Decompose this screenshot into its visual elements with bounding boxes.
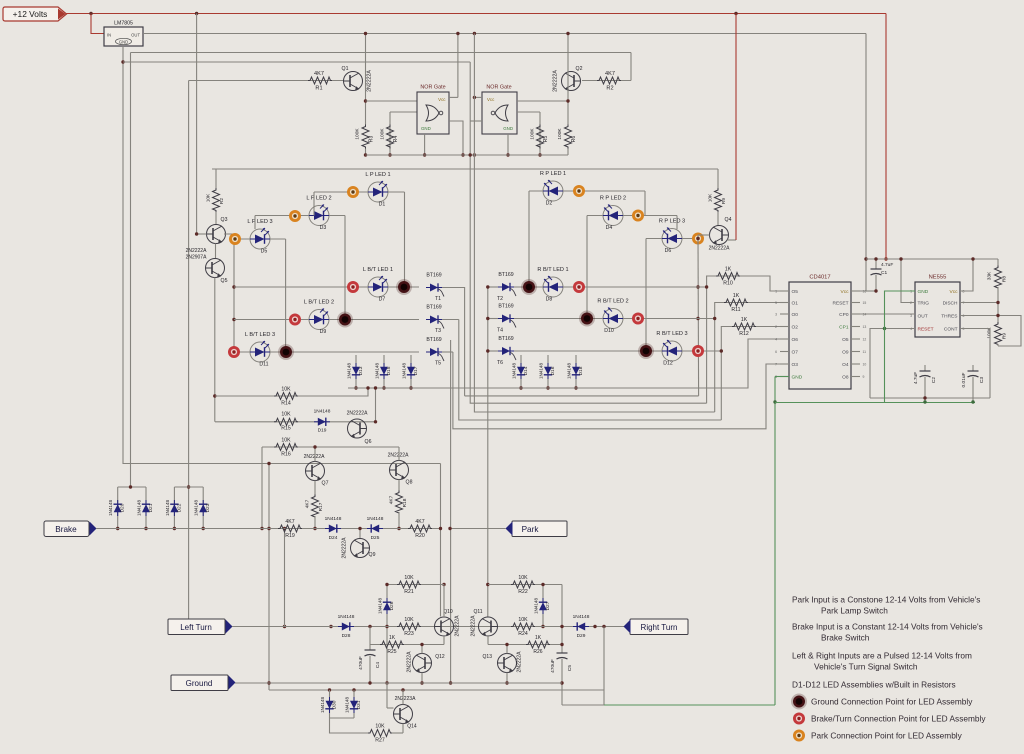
junction 375 bus — [374, 386, 377, 389]
svg-text:2N2222A: 2N2222A — [407, 651, 413, 673]
led D6 R P LED 3 — [662, 228, 682, 249]
led D1 L P LED 1 — [368, 181, 388, 202]
wire D26 col to ground — [386, 627, 388, 684]
junction Q5 col R14 row — [213, 394, 216, 397]
resistor R2 — [597, 77, 621, 84]
svg-text:D11: D11 — [259, 362, 268, 368]
wire R16 row — [262, 446, 399, 448]
svg-text:10K: 10K — [375, 724, 385, 730]
svg-text:3: 3 — [910, 314, 912, 318]
svg-text:Vcc: Vcc — [950, 289, 959, 295]
wire NOR2 input A — [517, 100, 568, 102]
wire ground row — [235, 682, 562, 684]
junction D31 y690 — [352, 688, 355, 691]
junction turn-x604 — [602, 625, 605, 628]
junction R16 brake row — [260, 527, 263, 530]
brake/turn connection point LBT1 — [347, 281, 359, 293]
wire NOR2 output — [470, 120, 482, 122]
svg-text:R25: R25 — [387, 649, 396, 655]
svg-text:O4: O4 — [842, 362, 849, 368]
svg-text:2N2222A: 2N2222A — [517, 651, 523, 673]
junction 973 y259 — [971, 257, 974, 260]
junction green 402 — [773, 400, 776, 403]
junction 998 disch — [996, 301, 999, 304]
svg-text:5: 5 — [775, 301, 777, 305]
svg-text:1N4148: 1N4148 — [345, 697, 350, 714]
wire park row1-2 link — [313, 192, 315, 216]
svg-text:D16: D16 — [550, 366, 556, 375]
diode D16 1N4148 — [547, 355, 549, 388]
resistor R17 — [314, 481, 316, 497]
svg-text:R2: R2 — [606, 86, 613, 92]
junction C4 turn row — [368, 625, 371, 628]
wire park row 2 — [255, 215, 345, 217]
svg-text:R11: R11 — [731, 307, 740, 313]
svg-text:O0: O0 — [792, 312, 799, 318]
junction on +12V rail at x196 — [195, 12, 198, 15]
svg-text:Q3: Q3 — [221, 217, 228, 223]
nor-gate U2 symbol — [495, 105, 508, 121]
wire Q13 top — [506, 645, 508, 654]
svg-text:13: 13 — [863, 325, 867, 329]
svg-text:470uF: 470uF — [358, 656, 364, 670]
ground connection point RBT2 — [579, 311, 595, 327]
svg-text:100K: 100K — [530, 128, 536, 140]
wire NOR1 Vcc stub — [449, 96, 458, 98]
junction R10col row1 — [705, 285, 708, 288]
svg-text:D10: D10 — [604, 328, 614, 334]
svg-text:R16: R16 — [281, 452, 291, 458]
svg-text:R9: R9 — [721, 198, 727, 204]
wire T3 cathode — [442, 319, 459, 321]
wire x440 drop to Q10 — [440, 464, 442, 617]
svg-text:IN: IN — [107, 33, 111, 38]
svg-text:10K: 10K — [404, 617, 414, 623]
svg-text:BT169: BT169 — [498, 272, 513, 278]
svg-text:R8: R8 — [1002, 276, 1008, 282]
svg-text:4K7: 4K7 — [305, 499, 311, 508]
svg-text:Q7: Q7 — [322, 481, 329, 487]
resistor R24 — [511, 623, 535, 630]
wire Q8 collector — [398, 447, 400, 461]
svg-text:CP1: CP1 — [839, 325, 849, 331]
svg-text:D4: D4 — [606, 225, 613, 231]
resistor R8 33K — [997, 259, 999, 267]
wire R27 to Q14 — [392, 732, 403, 734]
svg-text:R4: R4 — [393, 136, 399, 143]
diode D17 1N4148 — [410, 355, 412, 388]
junction D30 y690 — [328, 688, 331, 691]
diode D27 1N4148 — [542, 585, 544, 627]
svg-text:R18: R18 — [402, 498, 408, 507]
svg-text:D24: D24 — [329, 535, 338, 541]
wire R14 row — [215, 388, 368, 396]
wire THRES loop — [960, 316, 1021, 347]
wire R4 column — [389, 112, 391, 155]
junction x487 row1 — [486, 285, 489, 288]
svg-text:R1: R1 — [315, 86, 322, 92]
junction park riser gnd — [449, 681, 452, 684]
svg-text:C4: C4 — [375, 662, 381, 668]
junction Q13 top — [505, 643, 508, 646]
brake/turn connection point LBT3 — [228, 346, 240, 358]
wire 10K Q4 link — [717, 169, 719, 188]
svg-text:O1: O1 — [792, 301, 799, 307]
junction C5 ground row — [560, 681, 563, 684]
svg-text:Left Turn: Left Turn — [180, 623, 212, 632]
svg-text:1N4148: 1N4148 — [347, 363, 352, 380]
brake/turn connection point RBT2 — [632, 313, 644, 325]
resistor R15 — [274, 418, 298, 425]
junction Q14 y690 — [401, 688, 404, 691]
wire bus x130 down — [130, 53, 132, 488]
wire Q10 emitter drop — [443, 636, 445, 645]
junction D22 brake row — [173, 527, 176, 530]
diode D25 1N4148 — [367, 524, 383, 532]
svg-text:O8: O8 — [842, 375, 849, 381]
junction D16 bottom — [546, 386, 549, 389]
wire x487 long bus — [487, 287, 489, 617]
wire B/T row 3 left — [234, 351, 419, 353]
wire Q10 collector — [443, 585, 445, 618]
svg-text:10: 10 — [863, 363, 867, 367]
svg-text:BT169: BT169 — [426, 273, 441, 279]
svg-text:GND: GND — [918, 289, 929, 295]
transistor Q1 — [344, 72, 363, 91]
svg-text:100K: 100K — [355, 128, 361, 140]
wire Q14 bottom — [402, 724, 404, 734]
svg-text:2N2907A: 2N2907A — [186, 255, 208, 261]
nor-gate U1 box — [417, 92, 449, 134]
svg-text:D29: D29 — [577, 633, 586, 639]
svg-text:2N2222A: 2N2222A — [347, 411, 369, 417]
transistor Q5 — [206, 259, 225, 278]
park connection point RP1 — [573, 185, 585, 197]
svg-text:Left & Right Inputs are a Puls: Left & Right Inputs are a Pulsed 12-14 V… — [792, 651, 972, 661]
wire gnd rail NOR section — [366, 154, 569, 156]
junction R17 brake — [313, 527, 316, 530]
transistor Q4 — [710, 226, 729, 245]
svg-text:BT169: BT169 — [426, 305, 441, 311]
svg-text:D28: D28 — [342, 633, 351, 639]
diode D26 1N4148 — [386, 585, 388, 627]
legend park connection point — [793, 730, 805, 742]
svg-text:R15: R15 — [281, 426, 291, 432]
svg-text:Brake Switch: Brake Switch — [821, 633, 870, 643]
wire Q3 base — [197, 233, 207, 235]
svg-text:R27: R27 — [375, 738, 385, 744]
svg-text:4K7: 4K7 — [285, 519, 294, 525]
led D7 L B/T LED 1 — [368, 276, 388, 297]
input flag Right Turn — [630, 619, 688, 635]
wire park row — [450, 528, 506, 530]
svg-text:1N4148: 1N4148 — [338, 614, 355, 620]
svg-text:NOR Gate: NOR Gate — [420, 85, 445, 91]
input flag Park — [512, 521, 567, 537]
wire green gnd vertical — [774, 377, 776, 706]
wire +12 drop right — [735, 14, 737, 241]
svg-text:Q8: Q8 — [406, 480, 413, 486]
junction C4 gnd — [368, 681, 371, 684]
junction Q13 gnd — [505, 681, 508, 684]
svg-text:R12: R12 — [739, 331, 749, 337]
wire T1 cathode — [442, 288, 465, 396]
wire x269 vertical — [268, 464, 270, 691]
wire CONT — [960, 329, 990, 399]
svg-text:9: 9 — [863, 375, 865, 379]
junction D14 bottom — [519, 386, 522, 389]
wire B/T row 1 right — [512, 286, 707, 288]
wire CD4017 Vcc riser — [851, 34, 866, 292]
junction bracket1 — [129, 485, 132, 488]
park connection point RP2 — [632, 210, 644, 222]
wire R26 row — [488, 644, 562, 646]
svg-text:Brake/Turn Connection Point fo: Brake/Turn Connection Point for LED Asse… — [811, 714, 986, 724]
junction D28 anode — [329, 625, 332, 628]
svg-text:Ground: Ground — [186, 679, 213, 688]
svg-text:Brake: Brake — [55, 525, 77, 534]
capacitor C6 4.7uF — [924, 365, 926, 371]
transistor Q3 — [207, 225, 226, 244]
junction x562 turn — [560, 625, 563, 628]
wire bus row 403 — [470, 62, 706, 403]
wire R25 row — [370, 644, 444, 646]
wire R22 row — [488, 584, 562, 586]
counter IC CD4017 — [789, 282, 851, 389]
svg-text:T2: T2 — [497, 296, 503, 302]
svg-text:OUT: OUT — [918, 314, 928, 320]
resistor R23 — [397, 623, 421, 630]
wire bus row 395 — [465, 395, 699, 397]
junction x487 row2 — [486, 317, 489, 320]
junction x487 row3 — [486, 349, 489, 352]
resistor R19 — [278, 525, 302, 532]
svg-text:1N4148: 1N4148 — [108, 500, 113, 517]
svg-text:Q2: Q2 — [576, 66, 583, 72]
junction x487 R21row — [486, 583, 489, 586]
ground connection point RBT1 — [521, 279, 537, 295]
wire NOR2 Vcc stub — [474, 96, 482, 98]
junction Q4 row 318 — [696, 317, 699, 320]
junction D26 top — [385, 583, 388, 586]
junction D29 right — [593, 625, 596, 628]
junction Q2 collector node — [566, 99, 569, 102]
svg-text:Vcc: Vcc — [487, 97, 495, 102]
svg-text:Brake Input is a Constant 12-1: Brake Input is a Constant 12-14 Volts fr… — [792, 622, 983, 632]
capacitor C4 470uF — [369, 627, 371, 651]
svg-text:2N2222A: 2N2222A — [342, 537, 348, 559]
svg-text:1N4148: 1N4148 — [137, 500, 142, 517]
svg-text:15: 15 — [863, 301, 867, 305]
wire RLED2-ground col — [586, 216, 588, 319]
wire Q4 col — [697, 235, 700, 396]
+12 Volts supply flag — [3, 7, 67, 21]
junction Q9 base — [358, 527, 361, 530]
svg-text:D21: D21 — [148, 503, 154, 512]
led D8 R B/T LED 1 — [543, 276, 563, 297]
svg-text:Q5: Q5 — [221, 278, 228, 284]
svg-text:R2: R2 — [219, 198, 225, 204]
svg-text:1N4148: 1N4148 — [165, 500, 170, 517]
led D2 R P LED 1 — [543, 180, 563, 201]
wire Q12 top — [421, 645, 423, 654]
junction 375 R15row — [374, 420, 377, 423]
wire bus row 428 — [453, 352, 789, 429]
svg-text:NOR Gate: NOR Gate — [486, 85, 511, 91]
wire bus y52 — [131, 52, 632, 54]
junction red 886 — [884, 257, 887, 260]
svg-text:CP0: CP0 — [839, 312, 849, 318]
wire LED2-ground col — [344, 216, 346, 320]
park connection point LP1 — [347, 186, 359, 198]
svg-text:4: 4 — [775, 338, 777, 342]
thyristor T5 BT169 — [426, 348, 444, 361]
resistor R22 — [511, 581, 535, 588]
svg-text:R22: R22 — [518, 589, 528, 595]
junction 269 464 — [267, 462, 270, 465]
ground connection point LBT2 — [337, 312, 353, 328]
svg-text:T5: T5 — [435, 361, 441, 367]
wire park riser — [450, 340, 452, 683]
svg-text:2N2222A: 2N2222A — [367, 70, 373, 92]
svg-text:O5: O5 — [792, 289, 799, 295]
svg-text:RESET: RESET — [918, 327, 934, 333]
svg-text:D19: D19 — [318, 428, 327, 434]
capacitor C1 4.7uF near CD4017 — [875, 258, 877, 260]
wire bus row 388 — [348, 339, 789, 388]
brake/turn connection point RBT1 — [573, 281, 585, 293]
nor-gate U1 symbol — [426, 105, 439, 121]
svg-text:6: 6 — [775, 350, 777, 354]
svg-text:GND: GND — [792, 375, 803, 381]
svg-text:100K: 100K — [380, 128, 386, 140]
svg-text:D15: D15 — [386, 366, 392, 375]
junction NOR2 riser gnd — [473, 153, 476, 156]
svg-text:D17: D17 — [413, 366, 419, 375]
junction Q4 row2 — [696, 285, 699, 288]
svg-text:RESET: RESET — [833, 301, 849, 307]
led D11 L B/T LED 3 — [250, 341, 270, 362]
wire Q14 vertical — [402, 690, 404, 705]
svg-text:4K7: 4K7 — [389, 495, 395, 504]
svg-text:1N4148: 1N4148 — [194, 500, 199, 517]
input flag Brake — [44, 521, 89, 537]
resistor R4 — [387, 125, 394, 149]
transistor Q2 — [562, 72, 581, 91]
resistor R27 — [368, 730, 392, 737]
svg-text:2N2222A: 2N2222A — [388, 453, 410, 459]
wire y464 row — [123, 463, 441, 465]
wire R11 row — [715, 303, 789, 413]
junction R18 brake — [397, 527, 400, 530]
svg-text:2N2222A: 2N2222A — [553, 70, 559, 92]
input flag Ground — [171, 675, 228, 691]
svg-text:10K: 10K — [404, 575, 414, 581]
svg-text:10K: 10K — [281, 412, 291, 418]
wire B/T row 1 left — [234, 286, 419, 288]
wire NOR1 output — [449, 121, 463, 155]
junction turn row x284 — [283, 625, 286, 628]
svg-text:1K: 1K — [389, 635, 396, 641]
thyristor T3 BT169 — [426, 315, 444, 328]
thyristor T2 BT169 — [498, 283, 516, 296]
junction NOR1 Vcc rail — [456, 32, 459, 35]
diode D13 1N4148 — [355, 355, 357, 388]
svg-text:1N4148: 1N4148 — [567, 363, 572, 380]
transistor Q12 — [413, 654, 432, 673]
svg-text:Q11: Q11 — [473, 609, 482, 615]
junction D26 turn — [385, 625, 388, 628]
svg-text:L P LED 1: L P LED 1 — [365, 172, 390, 178]
transistor Q13 — [498, 654, 517, 673]
wire y398 row — [870, 397, 990, 399]
transistor Q14 — [394, 705, 413, 724]
svg-text:D23: D23 — [205, 503, 211, 512]
wire D20-21 bracket — [118, 486, 146, 488]
wire red top right drop — [885, 14, 887, 260]
svg-text:D6: D6 — [665, 248, 672, 254]
wire brake row — [96, 528, 441, 530]
wire T6 anode stub — [488, 350, 498, 352]
junction reset-green crossing — [883, 327, 886, 330]
svg-text:O7: O7 — [792, 350, 799, 356]
svg-text:10K: 10K — [281, 438, 291, 444]
diode D29 1N4148 — [573, 622, 589, 630]
diode D22 1N4148 — [173, 487, 175, 529]
svg-text:2: 2 — [775, 325, 777, 329]
legend brake/turn connection point — [793, 713, 805, 725]
svg-text:L B/T LED 3: L B/T LED 3 — [245, 332, 275, 338]
svg-text:D20: D20 — [120, 503, 126, 512]
wire NE555 GND green — [885, 291, 916, 402]
wire NOR1 GND stub — [424, 134, 426, 155]
wire park row 1 right — [529, 190, 645, 192]
svg-text:2N2223A: 2N2223A — [395, 696, 417, 702]
diode D21 1N4148 — [145, 487, 147, 529]
junction 901 y259 — [899, 257, 902, 260]
junction C5 R26 row — [560, 643, 563, 646]
svg-text:1K: 1K — [741, 317, 748, 323]
brake/turn connection point RBT3 — [692, 345, 704, 357]
junction Q3 base — [195, 232, 198, 235]
wire x196 down to Q3 base — [196, 14, 198, 235]
wire x188 down-left bus — [188, 81, 190, 627]
wire LM7805 GND down — [122, 46, 124, 464]
wire x375 link — [375, 388, 377, 422]
svg-text:10K: 10K — [206, 193, 212, 202]
svg-text:1N4148: 1N4148 — [539, 363, 544, 380]
resistor R12 — [732, 323, 756, 330]
svg-text:R B/T LED 2: R B/T LED 2 — [597, 299, 628, 305]
svg-text:GND: GND — [503, 126, 513, 131]
svg-text:D12: D12 — [663, 361, 673, 367]
wire Q7 collector — [314, 447, 316, 462]
wire LM7805 OUT 5V rail — [143, 33, 866, 35]
resistor R18 — [398, 480, 400, 493]
wire R10 row — [707, 276, 789, 403]
svg-text:D14: D14 — [523, 366, 529, 375]
svg-text:1N4148: 1N4148 — [512, 363, 517, 380]
resistor R6 — [565, 125, 572, 149]
wire bus row 420 — [459, 320, 722, 421]
thyristor T1 BT169 — [426, 283, 444, 296]
svg-text:D25: D25 — [371, 535, 380, 541]
junction D15 bottom — [382, 386, 385, 389]
svg-text:10K: 10K — [518, 617, 528, 623]
junction x444 R21row — [442, 583, 445, 586]
svg-text:Ground Connection Point for LE: Ground Connection Point for LED Assembly — [811, 697, 973, 707]
transistor Q10 — [435, 617, 454, 636]
